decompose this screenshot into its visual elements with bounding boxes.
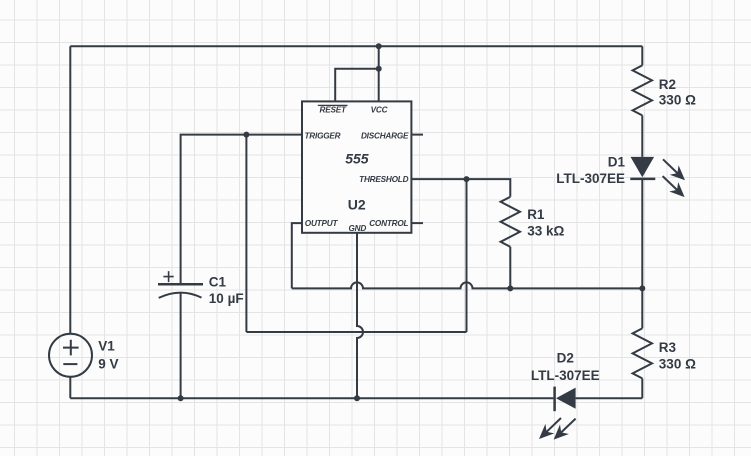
svg-text:330 Ω: 330 Ω xyxy=(659,92,696,107)
node: C1 bottom xyxy=(178,395,184,401)
wire: THRESHOLD to R1 top xyxy=(411,179,510,197)
svg-text:9 V: 9 V xyxy=(98,357,118,372)
node: threshold tee xyxy=(464,176,470,182)
wire: V1 bottom to corner xyxy=(69,377,71,398)
wire: bottom rail right of D2 xyxy=(576,397,643,399)
resistor R1 xyxy=(501,197,520,247)
wire: OUTPUT pin left, down, and across with hops xyxy=(292,223,643,288)
node: reset tee xyxy=(376,66,382,72)
svg-text:U2: U2 xyxy=(348,197,366,213)
svg-text:OUTPUT: OUTPUT xyxy=(305,219,339,228)
wire: trigger-threshold link (down, across, up) xyxy=(246,135,466,332)
wire: top rail xyxy=(70,45,642,47)
LED D1 xyxy=(630,157,685,197)
wire: R2 to D1 xyxy=(641,115,643,156)
resistor R2 xyxy=(633,65,652,115)
D1 light arrows xyxy=(663,159,685,180)
wire: D1 to R3 (through junction) xyxy=(641,179,643,329)
wire: GND pin down with hop over y=332 wire xyxy=(357,233,363,398)
op-amp-box: 555 IC U2 body xyxy=(302,101,411,232)
wire: RESET pin tee xyxy=(335,69,379,102)
svg-text:330 Ω: 330 Ω xyxy=(659,356,696,371)
wire: right rail top to R2 xyxy=(641,46,643,65)
node: top rail / VCC xyxy=(376,43,382,49)
wire: C1 bottom to bottom rail xyxy=(180,293,182,398)
svg-text:CONTROL: CONTROL xyxy=(369,219,408,228)
svg-text:10 µF: 10 µF xyxy=(209,291,244,306)
node: right rail / output wire xyxy=(639,285,645,291)
svg-text:LTL-307EE: LTL-307EE xyxy=(531,368,600,383)
svg-text:LTL-307EE: LTL-307EE xyxy=(556,171,625,186)
svg-text:THRESHOLD: THRESHOLD xyxy=(359,175,408,184)
svg-text:DISCHARGE: DISCHARGE xyxy=(361,131,409,140)
wire: TRIGGER to C1 top xyxy=(181,135,302,285)
svg-text:VCC: VCC xyxy=(371,105,389,114)
svg-text:V1: V1 xyxy=(98,338,115,353)
node: GND bottom xyxy=(354,395,360,401)
IC pin labels xyxy=(305,105,410,233)
capacitor C1 xyxy=(158,271,203,298)
wire: VCC pin to top rail xyxy=(378,46,380,101)
wire: left rail xyxy=(69,46,71,334)
pin stub DISCHARGE xyxy=(411,134,423,136)
svg-text:RESET: RESET xyxy=(320,106,347,115)
svg-text:R2: R2 xyxy=(659,77,676,92)
pin stub CONTROL xyxy=(411,222,423,224)
wire: R1 bottom lead xyxy=(509,247,511,289)
wire: bottom rail left of D2 xyxy=(70,397,553,399)
voltage source V1 xyxy=(49,334,92,377)
svg-text:TRIGGER: TRIGGER xyxy=(305,131,341,140)
D2 light arrows xyxy=(539,418,561,439)
svg-text:D1: D1 xyxy=(608,154,626,169)
svg-text:D2: D2 xyxy=(557,351,574,366)
node: R1 bottom xyxy=(507,285,513,291)
LED D2 xyxy=(539,387,576,440)
svg-text:555: 555 xyxy=(345,150,369,166)
svg-text:R3: R3 xyxy=(659,340,677,355)
svg-text:R1: R1 xyxy=(527,207,545,222)
node: trigger tee xyxy=(243,132,249,138)
wire: R3 to bottom rail xyxy=(641,378,643,398)
svg-text:33 kΩ: 33 kΩ xyxy=(527,224,564,239)
svg-text:GND: GND xyxy=(348,224,366,233)
resistor R3 xyxy=(633,328,652,378)
svg-text:C1: C1 xyxy=(209,274,227,289)
